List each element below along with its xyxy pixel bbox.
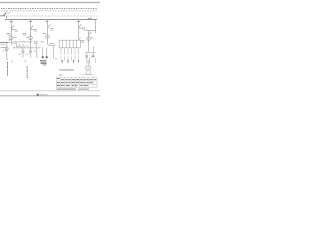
meter P1 <box>10 36 14 40</box>
wire: K1 lower b <box>88 57 90 63</box>
fuse-switch Q1 blade <box>11 25 14 29</box>
main bus wire L1 <box>5 19 97 21</box>
wire: motor feeder drop b <box>93 47 95 53</box>
wire: branch 5 lower drop <box>88 31 90 46</box>
title block cell texts <box>57 78 97 86</box>
main disconnect switch Q0 blade <box>4 12 7 15</box>
label: feeder destination 3 <box>50 42 54 45</box>
viewer toolbar dash 3 <box>44 94 45 95</box>
wire: K1 lower a <box>86 57 88 63</box>
source label line 2 <box>1 46 6 49</box>
viewer toolbar dash 4 <box>46 94 48 95</box>
caption text left <box>56 89 76 90</box>
caption text right <box>78 89 89 90</box>
wire: motor circuit horizontal <box>85 51 95 53</box>
motor M1 <box>86 70 90 74</box>
cable lug a <box>42 56 44 58</box>
wire: split conductor a <box>42 48 44 57</box>
terminal 1 tick <box>61 60 64 63</box>
fuse-switch Q2 blade <box>31 25 34 29</box>
fuse-switch Q5 blade <box>89 32 92 35</box>
cable W2 label under terminals <box>59 69 74 70</box>
cable W1 horizontal run <box>13 47 41 49</box>
wire: branch 5 drop <box>95 20 97 33</box>
wire: Q4 side stub <box>79 27 84 29</box>
feeder arrow branch 1 <box>11 29 16 31</box>
label above W3 <box>6 58 8 61</box>
wire: mid drop at x30 <box>30 49 32 58</box>
wire: incoming feeder arrow line <box>0 42 7 44</box>
wire: incoming feed segment left <box>0 15 5 17</box>
wire: branch 4 drop <box>78 20 80 40</box>
wire: branch 3 drop <box>47 20 49 45</box>
label above bus right <box>88 18 92 19</box>
value label branch 5 line 2 <box>81 41 85 44</box>
cable lug b <box>46 56 48 58</box>
label under H1 <box>18 53 21 56</box>
value label P2 line 2 <box>23 34 26 37</box>
branch circuit 2 <box>31 20 38 49</box>
terminal 2 tick <box>67 60 70 63</box>
value label P2 line 1 <box>22 32 26 35</box>
wire: mid drop at x23 <box>22 44 24 58</box>
value label branch 5 line 1 <box>80 39 84 42</box>
overload relay F2 box <box>86 66 91 69</box>
feeder arrowhead branch 3 <box>54 45 56 46</box>
wire: cable entry slash at X1 <box>79 38 81 40</box>
feeder arrowhead left <box>6 42 8 44</box>
wire: split conductor b <box>46 48 48 57</box>
top page-edge gray band <box>0 1 100 3</box>
label inside F2 <box>86 66 89 69</box>
label -Q4 <box>77 21 80 22</box>
wire: drop from feeder node <box>6 43 8 59</box>
label: feeder destination 1 <box>15 30 18 33</box>
wire: dashed continuation of feeder <box>9 42 14 44</box>
terminal 3 tick <box>72 60 75 63</box>
terminal device F1 <box>84 27 86 30</box>
meter P2 <box>29 36 33 40</box>
terminal 4 tick <box>77 60 80 63</box>
sheet header text row (tiny unreadable characters) <box>1 8 97 9</box>
wire: mid drop at x37 <box>36 44 38 58</box>
title block grid <box>56 77 97 87</box>
label W1 segment a <box>16 45 21 48</box>
wire: tick b under labels <box>19 44 21 48</box>
source label line 3 <box>2 49 8 52</box>
rating label Q3 line 1 <box>50 27 54 30</box>
label Q0 <box>7 11 9 14</box>
wire: motor feeder drop a <box>88 46 90 53</box>
branch circuit 4 <box>79 20 84 40</box>
branch circuit 3 <box>48 20 51 45</box>
indicator lamp H2 <box>29 50 31 52</box>
wire: branch 2 drop <box>30 20 32 49</box>
label right of P5 <box>91 36 94 39</box>
node label block (voltage note) line 1 <box>40 60 46 61</box>
wire: tick a under labels <box>16 44 18 48</box>
node label block line 2 <box>41 62 47 63</box>
dotted bus line L2 (neutral) <box>1 10 97 12</box>
wire: Q0 drop tick <box>5 16 7 18</box>
terminal strip X1 (connector block) <box>59 40 80 48</box>
fuse-switch Q4 blade <box>79 24 82 27</box>
source label line 1 <box>1 43 5 46</box>
label -Q3 <box>45 21 48 22</box>
meter P3 <box>46 35 50 39</box>
label: feeder destination 2 <box>34 30 37 33</box>
label left of P2 <box>26 36 29 39</box>
branch circuit 1 <box>11 20 16 45</box>
wire: stub to contactor a <box>86 52 88 55</box>
label above feeder <box>8 38 12 41</box>
label under H2 <box>26 53 29 56</box>
wire: branch 5 horizontal run <box>85 30 96 32</box>
label above W4 <box>25 60 27 63</box>
wire: branch 3 feeder stub <box>48 44 55 46</box>
label -Q2 <box>29 21 32 22</box>
wire: stub to contactor b <box>92 52 94 55</box>
label -F1 <box>82 27 84 30</box>
label row: circuit names <box>13 41 44 43</box>
window bottom separator line <box>0 94 100 97</box>
wire: conductor c <box>53 46 55 59</box>
wire: baseline under motor <box>83 74 93 76</box>
label right of P1 <box>14 36 17 39</box>
contactor K2 <box>92 55 95 57</box>
label left of P3 <box>42 32 46 35</box>
contactor K1 <box>85 55 88 57</box>
label at x33 <box>33 50 36 53</box>
label above title block <box>59 74 62 77</box>
wire: branch 1 drop <box>10 20 12 45</box>
indicator lamp H1 <box>22 50 24 52</box>
rating label Q3 line 2 <box>50 29 53 32</box>
meter P6 on feeder drop <box>5 47 8 50</box>
node tick near W3 <box>12 61 13 63</box>
value label P1 line 1 <box>6 32 10 35</box>
label W1 segment b <box>24 45 28 48</box>
dashed bus line L3 <box>0 15 97 17</box>
wires below terminal strip X1 <box>61 48 78 61</box>
wire: motor lead <box>87 60 89 66</box>
feeder arrow branch 2 <box>31 29 38 31</box>
viewer toolbar dash 1 <box>40 94 41 95</box>
wire: right stub <box>95 58 97 63</box>
cable W3 vertical label (rotated text) <box>7 62 8 76</box>
page bottom edge line <box>0 89 100 92</box>
viewer toolbar dash 2 <box>42 94 43 95</box>
label under conductor c <box>55 57 57 60</box>
label -Q1 <box>10 21 13 22</box>
meter P5 <box>87 37 91 41</box>
cable W4 vertical label (rotated text) <box>27 66 28 78</box>
value label P1 line 2 <box>7 34 11 37</box>
viewer toolbar dot <box>37 94 39 96</box>
fuse-switch Q3 blade <box>48 25 51 29</box>
node label block line 3 <box>43 64 46 65</box>
